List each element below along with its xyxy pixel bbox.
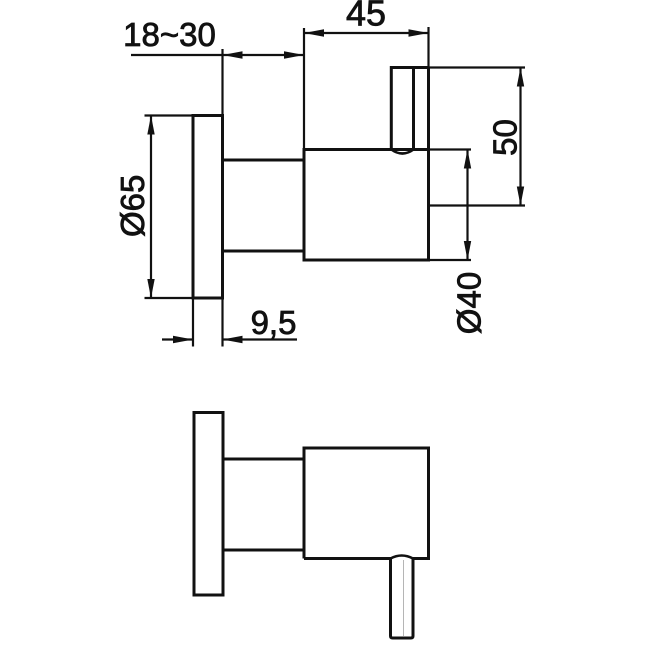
- svg-text:9,5: 9,5: [251, 304, 297, 341]
- svg-text:45: 45: [346, 0, 386, 34]
- svg-text:50: 50: [487, 119, 524, 156]
- svg-text:Ø40: Ø40: [451, 272, 488, 334]
- svg-text:18~30: 18~30: [123, 16, 216, 53]
- svg-text:Ø65: Ø65: [114, 175, 151, 237]
